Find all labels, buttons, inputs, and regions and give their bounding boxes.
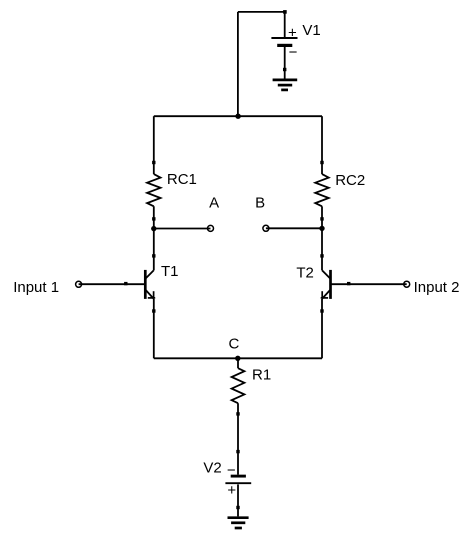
svg-text:−: − xyxy=(289,44,298,61)
svg-text:V2: V2 xyxy=(203,460,221,477)
svg-text:V1: V1 xyxy=(302,22,320,39)
svg-text:+: + xyxy=(288,24,297,41)
svg-text:A: A xyxy=(209,195,219,212)
svg-text:+: + xyxy=(227,482,236,499)
svg-text:R1: R1 xyxy=(252,366,271,383)
svg-text:RC2: RC2 xyxy=(335,172,365,189)
svg-text:RC1: RC1 xyxy=(167,171,197,188)
svg-text:C: C xyxy=(229,336,240,353)
svg-text:T2: T2 xyxy=(296,265,314,282)
svg-text:B: B xyxy=(255,195,265,212)
svg-text:−: − xyxy=(227,462,236,479)
svg-text:T1: T1 xyxy=(161,263,179,280)
svg-text:Input 2: Input 2 xyxy=(414,279,460,296)
svg-text:Input 1: Input 1 xyxy=(13,279,59,296)
